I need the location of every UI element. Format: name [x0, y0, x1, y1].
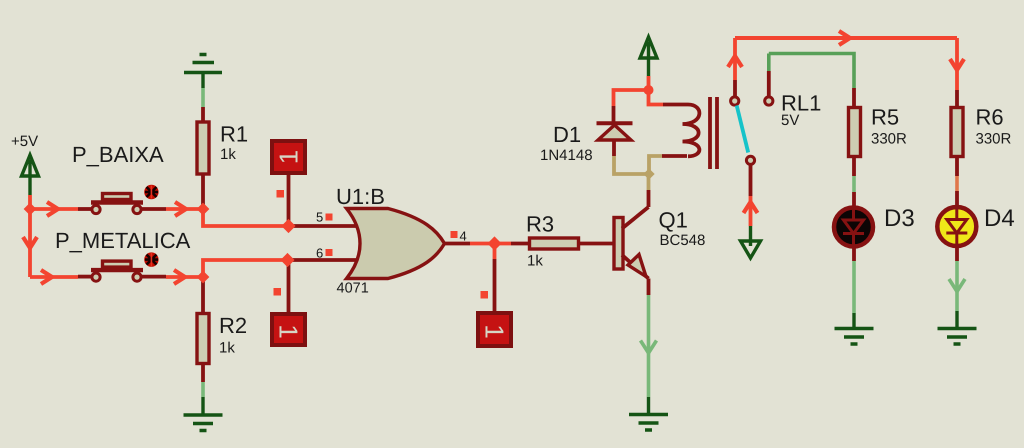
svg-text:R1: R1: [220, 122, 248, 147]
svg-text:1N4148: 1N4148: [540, 147, 593, 164]
svg-text:D4: D4: [984, 205, 1015, 232]
svg-text:6: 6: [316, 246, 323, 261]
svg-text:1k: 1k: [527, 253, 543, 270]
svg-text:R6: R6: [976, 105, 1004, 130]
svg-text:U1:B: U1:B: [336, 184, 385, 209]
svg-text:1: 1: [274, 324, 304, 338]
svg-text:1k: 1k: [220, 146, 236, 163]
svg-text:D3: D3: [884, 205, 915, 232]
svg-text:1: 1: [274, 150, 304, 164]
svg-text:R3: R3: [526, 212, 554, 237]
svg-text:4071: 4071: [337, 281, 369, 297]
svg-text:5V: 5V: [781, 112, 799, 129]
svg-text:5: 5: [316, 210, 323, 225]
svg-text:1k: 1k: [219, 340, 235, 357]
svg-text:BC548: BC548: [660, 232, 706, 249]
svg-text:P_METALICA: P_METALICA: [55, 228, 191, 253]
svg-text:1: 1: [480, 324, 510, 338]
svg-text:R5: R5: [871, 105, 899, 130]
svg-text:D1: D1: [553, 122, 581, 147]
svg-text:330R: 330R: [871, 131, 907, 148]
svg-text:330R: 330R: [976, 131, 1012, 148]
svg-text:P_BAIXA: P_BAIXA: [72, 142, 164, 167]
svg-text:R2: R2: [219, 313, 247, 338]
svg-text:+5V: +5V: [11, 133, 38, 150]
svg-text:4: 4: [460, 229, 467, 244]
svg-text:Q1: Q1: [659, 208, 688, 233]
